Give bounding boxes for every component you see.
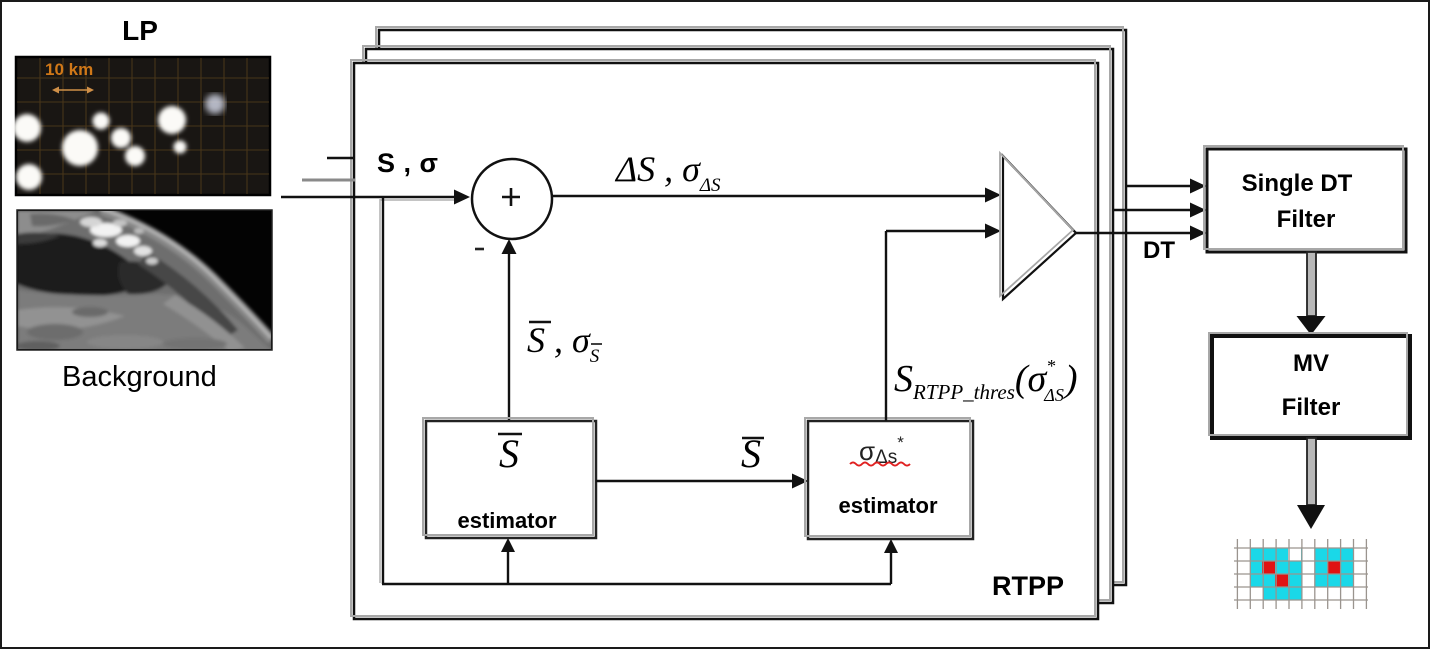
clouds [80, 217, 158, 265]
svg-text:RTPP: RTPP [992, 571, 1064, 601]
output wire 2 (middle layer) [1113, 203, 1206, 218]
cyan block B [1315, 548, 1354, 587]
Background image [16, 208, 273, 352]
bottom rocky texture [27, 324, 83, 340]
wire S-bar estimator to summing junction [502, 239, 517, 421]
red cell B [1328, 561, 1341, 574]
main input wire [281, 190, 470, 205]
RTPP box front layer [351, 60, 1098, 619]
wire summing junction to comparator [552, 188, 1001, 203]
LP image [13, 57, 270, 195]
svg-text:S , σ: S , σ [377, 148, 438, 178]
sigma estimator box [805, 418, 973, 539]
svg-text:estimator: estimator [838, 493, 937, 518]
limb band medium gray [102, 210, 272, 340]
minus sign [475, 248, 484, 251]
svg-text:Single DT: Single DT [1242, 170, 1353, 197]
thin bright limb edge [99, 208, 271, 338]
svg-text:estimator: estimator [457, 508, 556, 533]
upper-left land [17, 210, 98, 236]
svg-text:LP: LP [122, 15, 158, 46]
svg-text:S , σS: S , σS [527, 320, 600, 367]
svg-text:Filter: Filter [1277, 206, 1336, 233]
mid terrain band [17, 290, 273, 352]
RTPP box middle layer [363, 46, 1113, 603]
Single DT Filter box [1204, 146, 1406, 252]
output wire 1 (back layer) [1126, 179, 1206, 194]
cyan block A [1250, 548, 1302, 600]
svg-text:10 km: 10 km [45, 60, 93, 79]
wire sigma estimator to comparator [886, 224, 1001, 422]
svg-text:S: S [499, 431, 519, 476]
thick arrow DT to MV [1297, 252, 1326, 335]
grid lines [1234, 539, 1368, 609]
detection grid [1234, 539, 1368, 609]
svg-text:DT: DT [1143, 237, 1175, 264]
feedback branch arrow into S-bar estimator [501, 538, 515, 584]
comparator triangle [1000, 153, 1076, 299]
MV Filter box [1209, 333, 1410, 438]
svg-text:MV: MV [1293, 350, 1329, 377]
wire S-bar estimator to sigma estimator [596, 474, 808, 489]
feedback end arrow into sigma estimator [884, 539, 898, 584]
dark sea center-left [17, 233, 148, 296]
RTPP box back layer [376, 27, 1126, 585]
summing junction [472, 159, 552, 239]
feedback wire vertical from input [380, 198, 383, 584]
input stub line middle (gray) [302, 179, 355, 182]
output wire 3 (comparator apex) [1076, 226, 1206, 241]
S-bar estimator box [423, 418, 596, 538]
planet body below limb [17, 210, 273, 352]
label S_RTPP_thres [894, 356, 1078, 405]
label S-bar , sigma_S-bar [527, 320, 602, 367]
svg-text:Background: Background [62, 361, 217, 393]
svg-text:Filter: Filter [1282, 394, 1341, 421]
input stub line top [327, 157, 355, 160]
label S-bar mid [741, 431, 764, 476]
red cell A1 [1262, 561, 1275, 574]
thick arrow MV to grid [1297, 438, 1325, 529]
feedback wire horizontal [382, 583, 891, 585]
diagonal dark streak under limb [138, 252, 238, 340]
red cell A2 [1275, 574, 1288, 587]
